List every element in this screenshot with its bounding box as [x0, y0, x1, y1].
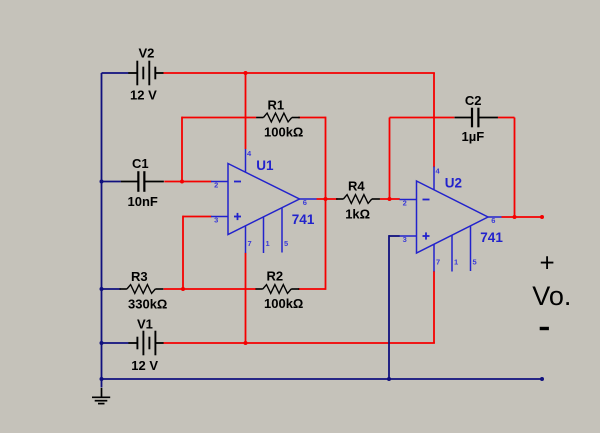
svg-text:1: 1 — [266, 239, 270, 248]
svg-text:R4: R4 — [348, 179, 365, 194]
svg-text:6: 6 — [491, 216, 495, 225]
svg-text:5: 5 — [284, 239, 288, 248]
svg-text:C2: C2 — [465, 93, 482, 108]
svg-text:7: 7 — [436, 257, 440, 266]
svg-text:R1: R1 — [268, 98, 285, 113]
svg-text:V2: V2 — [139, 46, 155, 61]
svg-text:2: 2 — [403, 198, 407, 207]
svg-text:7: 7 — [248, 239, 252, 248]
svg-text:741: 741 — [480, 230, 503, 245]
svg-text:C1: C1 — [132, 156, 149, 171]
svg-text:3: 3 — [403, 235, 407, 244]
svg-text:100kΩ: 100kΩ — [264, 125, 303, 140]
svg-text:1µF: 1µF — [462, 129, 485, 144]
svg-text:U1: U1 — [256, 158, 274, 173]
svg-text:12 V: 12 V — [130, 88, 157, 103]
svg-text:5: 5 — [473, 257, 477, 266]
svg-text:R2: R2 — [267, 268, 284, 283]
svg-text:1kΩ: 1kΩ — [345, 207, 370, 222]
svg-text:100kΩ: 100kΩ — [264, 296, 303, 311]
svg-text:2: 2 — [214, 180, 218, 189]
svg-text:3: 3 — [214, 215, 218, 224]
svg-text:+: + — [540, 248, 555, 278]
svg-text:U2: U2 — [445, 175, 462, 190]
svg-text:10nF: 10nF — [128, 194, 158, 209]
svg-text:R3: R3 — [131, 269, 148, 284]
svg-text:V1: V1 — [137, 316, 153, 331]
svg-text:6: 6 — [303, 198, 307, 207]
svg-text:741: 741 — [292, 212, 315, 227]
svg-text:Vo.: Vo. — [532, 281, 571, 311]
svg-text:330kΩ: 330kΩ — [128, 297, 167, 312]
svg-text:12 V: 12 V — [131, 358, 158, 373]
svg-text:1: 1 — [454, 257, 458, 266]
